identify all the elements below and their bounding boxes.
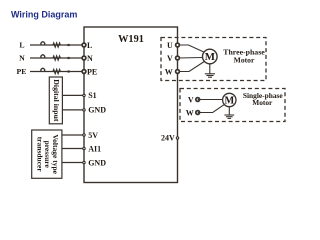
ground M2 stem — [228, 107, 230, 115]
svg-text:V: V — [188, 95, 194, 104]
terminal V — [176, 56, 180, 60]
terminal U — [176, 43, 180, 47]
motor M2 circle — [223, 93, 236, 106]
svg-text:GND: GND — [88, 158, 106, 167]
svg-text:N: N — [19, 54, 25, 63]
svg-text:Motor: Motor — [252, 98, 273, 107]
terminal W — [176, 70, 180, 74]
svg-text:transducer: transducer — [35, 137, 44, 173]
svg-text:M: M — [224, 95, 234, 106]
terminal L — [82, 43, 86, 47]
breaker loop L — [41, 42, 45, 45]
svg-text:V: V — [167, 54, 173, 63]
wire V to motor M2 — [198, 99, 223, 101]
svg-text:L: L — [87, 41, 92, 50]
svg-text:M: M — [205, 51, 215, 63]
wire digital input to S1 — [62, 94, 84, 96]
motor M1 circle — [203, 49, 218, 64]
wire digital input to GND — [62, 109, 84, 111]
three-phase motor dashed enclosure — [161, 38, 266, 81]
fuse square PE — [68, 70, 70, 72]
svg-text:Wiring Diagram: Wiring Diagram — [11, 10, 77, 20]
svg-text:W: W — [165, 67, 173, 76]
ground M1 bars — [205, 74, 215, 77]
terminal 24V — [176, 137, 178, 139]
svg-text:W191: W191 — [118, 34, 144, 45]
terminal GND (analog) — [83, 161, 85, 163]
ground M2 bars — [224, 115, 234, 118]
inverter block W191 outline — [84, 27, 178, 183]
wire W to motor — [178, 62, 205, 72]
svg-text:Digital input: Digital input — [52, 79, 61, 122]
breaker loop PE — [41, 68, 45, 71]
terminal W (single-phase) — [196, 111, 200, 115]
wire V to motor — [178, 57, 204, 60]
wire N input — [30, 57, 84, 59]
terminal N — [82, 56, 86, 60]
ground M1 stem — [209, 64, 211, 74]
filter zigzag N — [53, 56, 60, 60]
svg-text:5V: 5V — [88, 131, 98, 140]
wire PE input — [30, 71, 84, 73]
wire W to motor M2 — [198, 105, 224, 113]
svg-text:PE: PE — [17, 67, 27, 76]
svg-text:AI1: AI1 — [88, 144, 101, 153]
svg-text:S1: S1 — [88, 91, 96, 100]
svg-text:U: U — [167, 41, 173, 50]
svg-text:N: N — [87, 54, 93, 63]
single-phase motor dashed enclosure — [180, 89, 285, 122]
terminal PE — [82, 70, 86, 74]
filter zigzag PE — [53, 70, 60, 74]
svg-text:PE: PE — [87, 67, 97, 76]
terminal 5V — [83, 134, 85, 136]
wire transducer to AI1 — [62, 148, 84, 150]
terminal V (single-phase) — [196, 98, 200, 102]
wire transducer to 5V — [62, 134, 84, 136]
svg-text:Motor: Motor — [234, 56, 255, 65]
wire U to motor — [178, 45, 205, 52]
fuse square L — [68, 44, 70, 46]
terminal GND (digital) — [83, 109, 85, 111]
svg-text:GND: GND — [88, 106, 106, 115]
svg-text:W: W — [186, 108, 194, 117]
terminal AI1 — [83, 147, 85, 149]
svg-text:L: L — [19, 41, 24, 50]
wire L input — [30, 44, 84, 46]
wire transducer to GND — [62, 162, 84, 164]
fuse square N — [68, 57, 70, 59]
svg-text:24V: 24V — [161, 134, 175, 143]
pressure transducer box — [32, 130, 62, 178]
breaker loop N — [41, 55, 45, 58]
terminal S1 — [83, 94, 85, 96]
filter zigzag L — [53, 43, 60, 47]
digital input box — [49, 77, 62, 124]
